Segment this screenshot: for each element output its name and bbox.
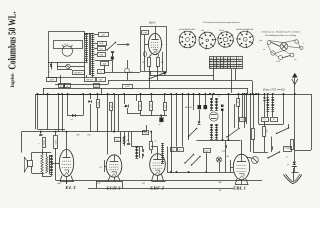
label A85 xyxy=(217,189,221,192)
label A26 xyxy=(141,182,145,185)
wire drop x246 xyxy=(246,93,248,124)
bus wire y75 xyxy=(150,71,214,76)
label 12V xyxy=(64,43,69,46)
wire drop x131 xyxy=(131,132,133,147)
dial pulley 4 xyxy=(279,56,283,60)
svg-text:Umbau d. Skalenseils mittels: Umbau d. Skalenseils mittels xyxy=(262,31,301,34)
capacitor C6 xyxy=(39,131,42,136)
label J40-40 xyxy=(185,106,193,109)
bus wire y80 xyxy=(108,81,252,85)
earth arrow xyxy=(284,168,302,184)
svg-text:GW: GW xyxy=(95,86,98,88)
label 400 mid xyxy=(219,181,223,184)
diode D2 xyxy=(123,93,128,107)
wire drop x199 xyxy=(198,93,200,105)
svg-text:ca.2x: ca.2x xyxy=(276,61,280,63)
wire drop x205 xyxy=(204,93,206,105)
box 1o xyxy=(98,70,105,74)
svg-text:Ingelen: Ingelen xyxy=(11,73,16,87)
bus wire y84 xyxy=(55,84,108,86)
pilot lamp xyxy=(216,157,221,162)
wire drop x107 xyxy=(107,93,109,154)
tube socket X3 xyxy=(217,31,234,48)
electrolytic 5X51 xyxy=(54,131,58,181)
tube V2 top lead xyxy=(66,131,68,150)
switch S4 xyxy=(184,154,200,166)
resistor R7 solid xyxy=(198,105,208,109)
wire drop x222 xyxy=(222,122,224,140)
svg-text:0,2: 0,2 xyxy=(241,119,243,121)
svg-text:30: 30 xyxy=(238,101,240,103)
svg-text:y-ke: y-ke xyxy=(258,40,262,42)
output transformer secondary xyxy=(44,153,53,175)
capacitor A1 xyxy=(94,33,108,37)
table drop wire 2 xyxy=(231,69,233,93)
wire drop x228 xyxy=(228,93,230,140)
IF trim caps xyxy=(221,105,224,123)
wire drop x171 xyxy=(170,93,172,173)
svg-text:MW-LW: MW-LW xyxy=(85,80,93,82)
svg-text:4µ: 4µ xyxy=(172,148,174,151)
svg-text:2o: 2o xyxy=(179,149,181,151)
variable capacitor C9 xyxy=(150,93,154,115)
wire drop x310 xyxy=(311,94,313,150)
tube V4 top lead xyxy=(151,147,157,154)
socket heading xyxy=(203,21,240,24)
svg-text:370: 370 xyxy=(140,105,142,108)
capacitor A3 xyxy=(94,47,105,51)
wire Eu42 down xyxy=(205,153,207,173)
rectifier diode D5 xyxy=(287,162,297,173)
svg-text:µ2: µ2 xyxy=(165,105,167,107)
capacitor C5 xyxy=(111,52,114,57)
svg-text:A26: A26 xyxy=(141,182,145,185)
svg-text:150: 150 xyxy=(99,48,102,50)
loudspeaker xyxy=(24,157,32,172)
turntable circle xyxy=(62,45,73,56)
svg-text:C TV 3: C TV 3 xyxy=(158,71,167,75)
wire drop x37 xyxy=(37,93,39,129)
resistor R3 xyxy=(88,93,91,132)
box A pair xyxy=(171,148,184,152)
wire drop x21 speaker xyxy=(21,132,23,153)
wire drop x167 xyxy=(167,147,169,173)
svg-text:A80: A80 xyxy=(98,79,102,82)
antenna symbol xyxy=(292,73,298,94)
wire y150 right xyxy=(295,150,311,152)
tube V2 pin wires xyxy=(60,176,74,184)
pickup inner shelf xyxy=(54,41,83,49)
wire drop x124b xyxy=(123,132,125,146)
wire cap470 down xyxy=(225,148,227,172)
variable capacitor C8 xyxy=(139,93,143,115)
svg-text:f-d: f-d xyxy=(294,58,296,61)
wire drop x193 xyxy=(193,93,195,110)
svg-text:Gr: Gr xyxy=(66,86,68,88)
box TY40 xyxy=(284,147,292,152)
voltage table xyxy=(209,57,243,70)
label ECH3 xyxy=(105,187,121,191)
dial pulley 3 xyxy=(271,51,275,55)
speaker wires xyxy=(32,153,45,174)
title Columbus 50 WL xyxy=(7,11,19,69)
head amplifier box xyxy=(141,27,167,72)
wire drop x58 xyxy=(58,93,60,132)
svg-text:a2a4a6a8v: a2a4a6a8v xyxy=(179,28,196,31)
svg-text:5X,51: 5X,51 xyxy=(55,140,57,145)
svg-text:e8v: e8v xyxy=(201,30,204,32)
head box bottom leads xyxy=(145,35,163,72)
resistor R4 xyxy=(97,93,100,132)
wire y146 mid xyxy=(132,146,143,148)
antenna coil secondary xyxy=(91,33,94,76)
svg-text:470: 470 xyxy=(222,150,225,153)
bus wire y94 right xyxy=(258,94,311,96)
band switch S1 xyxy=(106,42,116,51)
padder switch xyxy=(188,128,197,137)
svg-text:1000: 1000 xyxy=(267,129,269,133)
table drop wire 3 xyxy=(235,69,237,81)
label µ2 mid xyxy=(155,141,157,143)
wire drop x234 xyxy=(234,104,236,128)
svg-text:240: 240 xyxy=(224,67,227,70)
svg-text:Gesamtstromaufnahme: Gesamtstromaufnahme xyxy=(203,21,240,24)
wire x294 down xyxy=(294,93,296,161)
wire drop x244 xyxy=(244,93,246,128)
label EL3 xyxy=(64,186,76,190)
svg-text:4µ0: 4µ0 xyxy=(103,62,106,65)
tube V5 grid lead xyxy=(225,155,233,172)
tube V5 (EBL1) xyxy=(233,154,249,180)
wire drop x114 xyxy=(113,93,115,133)
label 740 780 xyxy=(76,134,91,137)
resistor R11 xyxy=(291,140,294,150)
bus wire y129 stub xyxy=(38,129,66,131)
svg-text:a2b4a6v8: a2b4a6v8 xyxy=(236,28,255,31)
label EBL1 xyxy=(232,187,247,191)
wire y72 to head box xyxy=(104,72,140,74)
coil L5 xyxy=(161,143,164,164)
bus wire y94 (HT rail) xyxy=(36,94,259,129)
wire drop x182 xyxy=(182,93,184,146)
svg-text:Handkapazität n.richtig: Handkapazität n.richtig xyxy=(264,34,297,37)
svg-text:A85: A85 xyxy=(217,189,221,192)
wire drop x101 xyxy=(101,88,103,94)
wave change arrow xyxy=(117,43,130,46)
dial pulley 6 xyxy=(295,40,299,44)
diode D1 xyxy=(71,114,76,121)
wire y113 xyxy=(127,108,141,114)
box Eu42 xyxy=(203,149,210,153)
wire drop x176 xyxy=(176,93,178,146)
capacitor C14 xyxy=(272,137,273,153)
tube V5 pin wires xyxy=(235,179,249,185)
coil top leads xyxy=(85,34,93,41)
resistor R9 xyxy=(252,93,255,152)
svg-text:A16: A16 xyxy=(96,182,100,185)
svg-text:µ50: µ50 xyxy=(111,105,113,108)
svg-text:µW50: µW50 xyxy=(125,86,130,88)
svg-text:0,1: 0,1 xyxy=(273,119,275,121)
output transformer primary xyxy=(46,153,48,174)
bus corner x252 xyxy=(252,81,254,94)
svg-text:40: 40 xyxy=(233,67,235,70)
pickup unit enclosure xyxy=(49,32,85,78)
coil terminal labels xyxy=(85,75,106,82)
bus junction x256 xyxy=(255,93,257,95)
svg-text:2,2: 2,2 xyxy=(228,68,230,70)
mains transformer secondary xyxy=(271,98,274,112)
bus wire y172 xyxy=(167,171,234,173)
bus wire y180 (cathode rail) xyxy=(56,180,262,182)
table drop wire 1 xyxy=(213,69,215,81)
transformer leads xyxy=(267,93,274,117)
resistor R6 xyxy=(150,131,153,154)
box 47µµ xyxy=(143,125,149,135)
tube V4 (EBF2) xyxy=(150,154,166,176)
coil core xyxy=(90,33,91,75)
svg-text:12 V: 12 V xyxy=(64,43,69,46)
resistor R1 xyxy=(142,52,151,67)
capacitor C13 xyxy=(222,140,227,153)
avc line y115 xyxy=(68,115,84,117)
svg-text:5µ,0,1: 5µ,0,1 xyxy=(44,140,46,145)
svg-text:µ2: µ2 xyxy=(155,141,157,143)
oscillator coil top lead xyxy=(212,94,214,98)
tube V3 (ECH3) xyxy=(106,155,122,177)
svg-text:−µw: −µw xyxy=(217,96,222,98)
tube socket X2 xyxy=(199,32,217,50)
switch S6 xyxy=(267,151,280,158)
wire drop x67 xyxy=(67,93,69,115)
svg-text:Columbus 50 WL.: Columbus 50 WL. xyxy=(7,11,19,69)
label A16 xyxy=(96,182,100,185)
wire drop x118 ext xyxy=(118,114,120,132)
switch S5 mains xyxy=(276,127,289,134)
svg-text:EBL 1: EBL 1 xyxy=(232,187,247,191)
wire drop x188 xyxy=(188,93,190,140)
oscillator coil bottom xyxy=(210,124,218,140)
capacitor C10 xyxy=(164,93,167,115)
label EBF2 xyxy=(149,187,165,191)
wire drop x118 xyxy=(118,94,120,114)
svg-text:J-40: J-40 xyxy=(143,31,147,34)
socket label row xyxy=(179,28,255,32)
IF trim capacitors xyxy=(143,147,144,159)
resistor R2 xyxy=(157,58,164,67)
antenna coil primary xyxy=(85,33,88,63)
dial note line 1 xyxy=(262,31,301,34)
wire y115 mid xyxy=(141,115,168,117)
wire drop x122 tube2 xyxy=(122,181,124,189)
IF transformer winding xyxy=(135,147,139,159)
wire drop x288 xyxy=(288,124,290,128)
dial note line 2 xyxy=(264,34,297,37)
wire drop x47 xyxy=(47,93,49,129)
dial pulley 5 xyxy=(290,53,294,57)
svg-text:Tx: Tx xyxy=(60,86,62,88)
svg-text:ECH 3: ECH 3 xyxy=(105,187,121,191)
box 5µ mid xyxy=(115,138,130,142)
tube V1 leads xyxy=(149,26,159,57)
svg-text:6,3: 6,3 xyxy=(238,68,240,70)
tube V5 top lead xyxy=(241,140,243,154)
tuning gang arrow xyxy=(149,72,167,79)
oscillator coil top xyxy=(210,98,218,111)
bus wire y88 xyxy=(43,88,248,90)
capacitor A4 xyxy=(94,53,105,57)
svg-text:0,1: 0,1 xyxy=(263,119,265,121)
svg-text:Eu42: Eu42 xyxy=(203,150,208,153)
svg-text:EL 3: EL 3 xyxy=(64,186,76,190)
svg-text:47µµ: 47µµ xyxy=(144,131,148,134)
capacitor blob xyxy=(111,52,114,72)
capacitor C12 xyxy=(127,132,130,145)
wire drop x242 xyxy=(240,93,246,121)
wire drop x135 xyxy=(136,94,138,101)
tube V3 grid leads xyxy=(98,160,106,172)
svg-text:EBF 2: EBF 2 xyxy=(149,187,165,191)
junction blob xyxy=(209,93,221,98)
label 400 under V2 xyxy=(58,182,62,185)
switch S3 xyxy=(226,128,239,138)
svg-text:370: 370 xyxy=(151,105,153,108)
label ANT xyxy=(47,78,57,82)
svg-text:ANT: ANT xyxy=(48,78,54,81)
wire drop x63 xyxy=(61,84,63,131)
tube V1 xyxy=(148,33,161,54)
dial sketch labels xyxy=(258,40,305,63)
svg-text:95: 95 xyxy=(210,68,212,70)
wire drop x250 xyxy=(250,93,252,152)
dial pulley 2 xyxy=(267,41,271,45)
capacitor block 5µ xyxy=(39,138,46,148)
box 4u0 xyxy=(95,61,112,73)
svg-text:µ: µ xyxy=(39,143,40,145)
svg-text:PICKUP: PICKUP xyxy=(73,72,83,74)
wire drop x111 xyxy=(111,111,113,132)
oscillator tube circle xyxy=(210,112,219,121)
wire y88 left end xyxy=(43,88,45,94)
tube V2 (EL3) xyxy=(59,150,73,177)
wire drop x283 xyxy=(283,93,285,124)
svg-text:0,4: 0,4 xyxy=(221,67,223,70)
svg-text:A80: A80 xyxy=(99,53,103,56)
grid stopper xyxy=(51,163,59,165)
antenna arrow xyxy=(292,79,298,85)
svg-text:1o: 1o xyxy=(100,71,102,73)
capacitor C11 xyxy=(159,116,164,126)
label HEAD xyxy=(148,21,156,25)
wire drop x83 xyxy=(82,93,84,115)
svg-text:5µo: 5µo xyxy=(116,140,119,142)
wire lamp down xyxy=(219,162,221,172)
capacitor box uW50 xyxy=(123,85,133,89)
diode D3 xyxy=(198,110,201,125)
capacitor A2 xyxy=(94,42,106,46)
output transformer wires xyxy=(42,174,52,177)
label PICKUP xyxy=(57,70,85,75)
pickup jack xyxy=(57,64,85,68)
wire drop x120 xyxy=(120,132,122,155)
capacitor C7 xyxy=(110,103,116,111)
wire drop x258 xyxy=(258,93,260,124)
terminal box row xyxy=(59,84,100,88)
wire y152 right xyxy=(253,152,268,154)
svg-text:1,2: 1,2 xyxy=(214,68,216,70)
tube socket X1 xyxy=(179,31,196,48)
resistor R8 xyxy=(237,93,241,128)
coupling box J40 xyxy=(142,31,149,35)
svg-text:Eur/55≂42: Eur/55≂42 xyxy=(261,88,285,92)
dial cord run xyxy=(267,40,300,58)
label C TV 3 xyxy=(158,71,167,75)
resistor R10 1000 xyxy=(263,122,269,153)
diode in pickup unit xyxy=(48,62,58,74)
title Ingelen xyxy=(11,73,16,87)
capacitor Cw xyxy=(125,60,134,81)
svg-text:215: 215 xyxy=(217,68,220,70)
tube V3 pin wires xyxy=(96,176,122,188)
box fuse xyxy=(262,118,278,122)
field coil xyxy=(41,149,43,177)
dial pulley 7 xyxy=(300,46,303,49)
bus wire y188 xyxy=(88,188,233,190)
mains transformer primary xyxy=(266,98,269,112)
svg-text:H(A3: H(A3 xyxy=(148,21,156,25)
wire pickup to bus xyxy=(60,75,62,84)
diode D4 xyxy=(263,93,266,117)
pickup shelf line xyxy=(48,62,85,64)
jack right of V5 xyxy=(247,157,259,164)
bus wire y131 left xyxy=(22,131,148,133)
bus corner x247 xyxy=(247,88,249,94)
wire y124 right xyxy=(259,124,284,126)
svg-text:0,1µ: 0,1µ xyxy=(97,102,99,106)
wire y140 osc xyxy=(197,139,241,141)
head box drop wires xyxy=(150,71,158,88)
label µw right xyxy=(286,157,289,159)
tube V4 pin wires xyxy=(152,175,166,182)
dial drive pulley xyxy=(280,43,288,51)
label Eur 155-42 xyxy=(261,88,285,92)
tube socket X4 xyxy=(236,31,253,49)
